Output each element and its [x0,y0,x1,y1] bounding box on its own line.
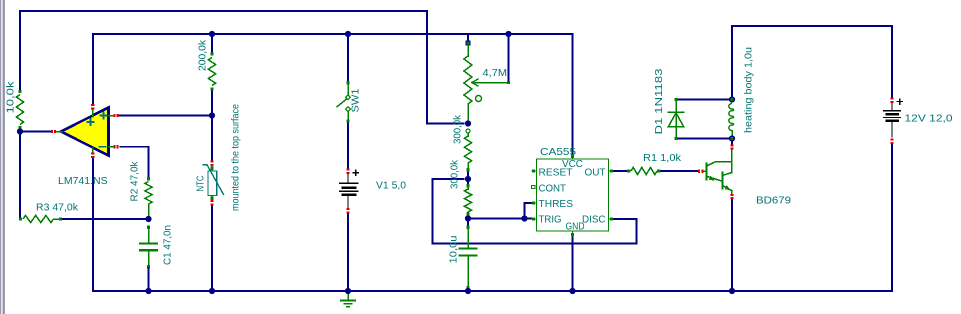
op-amp output pin stub [56,131,62,133]
node 200k / inner rail [209,31,215,37]
battery 12V plus sign [897,101,902,103]
wire 300k-1 bottom stub [467,171,469,179]
svg-text:SW1: SW1 [350,88,362,112]
resistor 300,0k lower [466,184,469,187]
svg-text:12V 12,0: 12V 12,0 [905,113,953,125]
wire 555 GND to bottom rail [572,236,574,291]
svg-text:OUT: OUT [585,168,606,179]
wire D1 top to coil node [676,99,732,101]
wire 10u cap top stub [467,219,469,227]
node R3 / R2 / C1 [145,216,151,222]
wire op-amp V+ supply [92,34,94,104]
resistor R1 1,0k [627,169,630,172]
wire R3 to R2/C1 node [61,218,149,220]
svg-text:mounted to the top surface: mounted to the top surface [230,104,242,211]
wire bottom rail [93,290,892,292]
wire 12V battery bottom to rail [891,144,893,291]
wire 555 VCC drop from inner rail [572,34,574,157]
svg-text:200,0k: 200,0k [197,39,209,71]
wire V1 battery to bottom rail [347,214,349,292]
wire inner top rail [93,33,573,35]
svg-text:4,7M: 4,7M [483,67,508,79]
node 10u / bottom rail [465,288,471,294]
node between 300k resistors / DISC [465,176,471,182]
CA555 pin GND [572,231,574,236]
wire R1 to BD679 base [659,170,698,172]
svg-text:V1 5,0: V1 5,0 [376,180,406,192]
wire THRES pin link down to TRIG wire [525,203,534,219]
svg-text:BD679: BD679 [756,195,791,207]
op-amp V- pin stub [92,148,94,154]
wire SW1 to V1 battery [347,122,349,169]
battery 12V 12,0 [890,98,893,100]
capacitor 10,0u [466,226,469,229]
wire wiper drop from inner rail [508,34,510,82]
svg-text:TRIG: TRIG [539,215,562,226]
svg-text:GND: GND [566,221,585,232]
op-amp + input marker [101,115,107,117]
capacitor C1 47,0n [147,226,150,229]
svg-text:heating body 1,0u: heating body 1,0u [743,47,755,133]
wire DISC loop to 300k junction [433,179,637,244]
svg-text:NTC: NTC [195,175,207,191]
node 555 GND / bottom rail [569,288,575,294]
CA555 pin RESET [532,170,537,172]
node NTC / bottom rail [209,288,215,294]
op-amp + input pin stub [109,115,114,117]
wire potentiometer top stub [467,34,469,42]
node 300k-2 / 10u / TRIG [465,215,471,221]
transistor Q1 BD679 [698,170,700,173]
resistor R3 47,0k [19,217,22,220]
wire C1 bottom to rail [148,268,150,291]
battery V1 plus sign [353,172,358,174]
svg-text:LM741.NS: LM741.NS [58,175,108,187]
wire 300k-2 top stub [467,179,469,185]
CA555 pin THRES [532,202,537,204]
svg-text:CONT: CONT [539,183,567,194]
svg-text:300,0k: 300,0k [452,114,464,144]
resistor 10,0k [18,90,21,93]
node op-amp output [17,128,23,134]
svg-text:R1 1,0k: R1 1,0k [643,152,682,164]
wire outer-rail drop to potentiometer node [427,11,465,124]
thermistor NTC body [210,167,213,170]
inductor heating body 1,0u [730,98,733,101]
op-amp - input marker [100,146,106,148]
CA555 pin TRIG [532,218,537,220]
window edge bar [0,0,5,314]
wire collector stub [731,139,733,145]
switch SW1 [346,81,349,84]
svg-text:C1 47,0n: C1 47,0n [162,225,174,265]
node wiper / inner rail [505,31,511,37]
CA555 pin OUT [609,170,614,172]
resistor 300,0k upper [466,129,470,133]
CA555 pin VCC [572,155,574,159]
diode D1 1N1183 [674,98,677,101]
wire op-amp + input to NTC node [120,115,213,117]
wire NTC top stub [211,116,213,161]
svg-text:10,0u: 10,0u [448,235,460,263]
wire left column below 10k to R3 [19,128,21,219]
wire left column top (10k to +rail) [19,11,21,92]
node potentiometer bottom [465,120,471,126]
svg-text:R3 47,0k: R3 47,0k [36,202,79,214]
IC U2 CA555 box [537,159,609,231]
wire TRIG node to 555 TRIG pin [468,218,533,220]
svg-text:10,0k: 10,0k [5,81,17,114]
resistor R2 47,0k [147,177,150,180]
node emitter / bottom rail [729,288,735,294]
node D1/coil top [729,96,735,102]
wire NTC bottom to bottom rail [211,206,213,291]
wire 300k-2 bottom to TRIG node [467,213,469,219]
node THRES-TRIG tie [521,215,527,221]
svg-text:THRES: THRES [539,199,574,210]
svg-text:CA555: CA555 [540,146,576,158]
op-amp - input pin stub [109,146,114,148]
node C1 / bottom rail [145,288,151,294]
wire 555 OUT to R1 [612,170,629,172]
op-amp U1 LM741 body [61,108,109,156]
op-amp V+ pin stub [92,110,94,117]
wire op-amp V- supply down to bottom rail [92,158,94,291]
ground symbol [347,291,349,300]
svg-text:R2 47,0k: R2 47,0k [129,161,141,202]
svg-text:RESET: RESET [539,168,573,179]
wire heating body column top [731,26,733,100]
node SW1 / inner rail [345,31,351,37]
potentiometer 4,7M [466,41,470,45]
CA555 pin CONT [532,185,535,188]
wire 200k bottom to node [211,90,213,116]
wire op-amp - input to R2 [120,147,149,177]
CA555 pin DISC [609,218,614,220]
wire SW1 top stub [347,34,349,82]
wire 200k top stub [211,34,213,53]
svg-text:DISC: DISC [582,215,606,226]
battery V1 5,0 [346,169,349,171]
wire 12V battery top [891,26,893,98]
resistor 200,0k [210,52,213,55]
wire outer top rail [20,10,427,12]
svg-text:D1 1N1183: D1 1N1183 [653,68,665,134]
wire op-amp output to left column [23,131,51,133]
svg-text:300,0k: 300,0k [449,159,461,189]
node D1/coil/collector [729,135,735,141]
wire D1 bottom to collector node [676,138,732,140]
node + input / 200k / NTC [209,112,215,118]
wire emitter to bottom rail [731,199,733,291]
op-amp V+ marker [88,121,94,123]
wire right top rail [732,25,892,27]
node V1 / ground / bottom rail [345,288,351,294]
